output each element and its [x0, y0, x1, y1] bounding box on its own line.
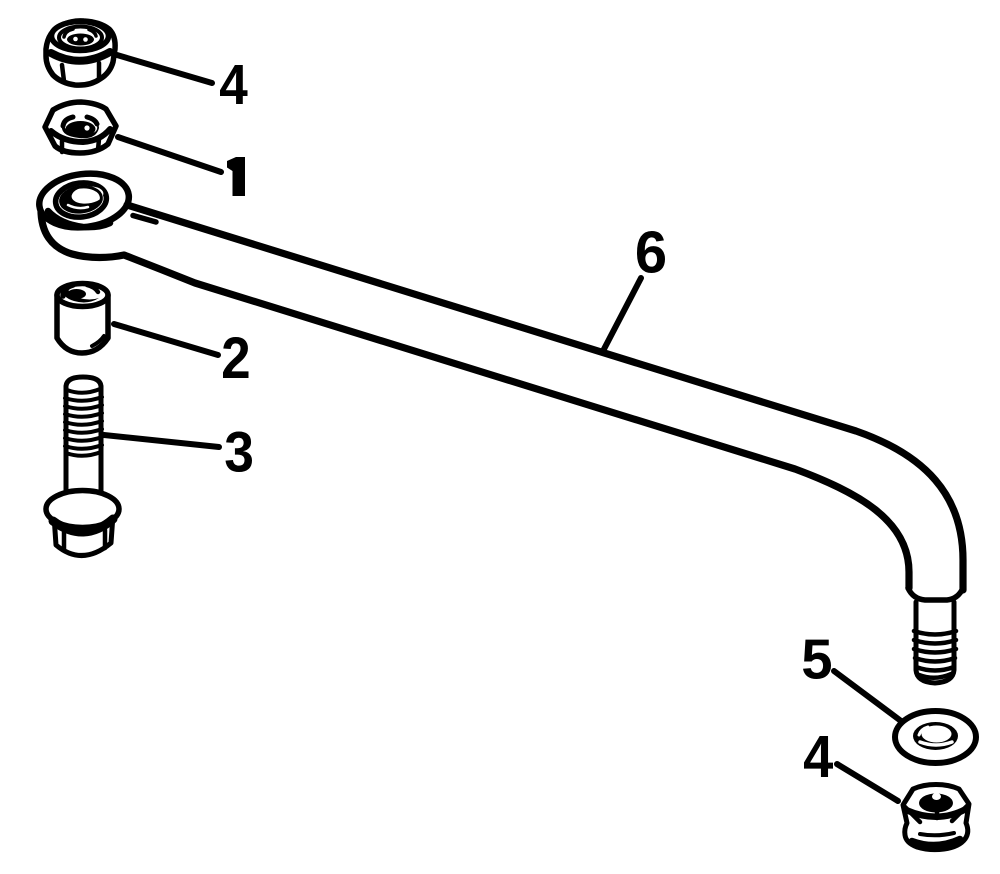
- label 6: [637, 231, 665, 273]
- chamfer shadow under rings: [48, 211, 110, 227]
- leader line to 4 (bottom): [837, 764, 898, 801]
- label 2: [223, 337, 248, 378]
- leader line to 6: [603, 278, 641, 351]
- hex nut (part 1): [45, 102, 116, 153]
- threaded stud: [916, 602, 954, 683]
- flange bolt (part 3): [46, 377, 119, 556]
- locknut top (part 4): [46, 21, 115, 85]
- leader line to 1: [118, 137, 221, 172]
- label 3: [226, 432, 252, 472]
- label 4 (top): [220, 65, 248, 104]
- flange nut bottom (part 4): [903, 785, 969, 850]
- eye inner hole with dark crescent: [58, 185, 103, 216]
- spacer bushing (part 2): [57, 283, 108, 353]
- label 5: [803, 640, 831, 679]
- leader line to 2: [114, 324, 218, 355]
- leader line to 3: [104, 435, 219, 447]
- rod lower edge with eye boss bottom: [41, 206, 909, 588]
- eye outer ring: [36, 169, 132, 233]
- label 4 (bottom): [804, 736, 833, 777]
- stub bottom shoulder: [908, 588, 963, 600]
- leader line to 5: [834, 671, 901, 721]
- washer (part 5): [895, 711, 976, 763]
- rod upper edge: [127, 205, 963, 590]
- leader line to 4 (top): [117, 55, 212, 83]
- link rod (part 6) with eye end and threaded stud: [36, 169, 963, 683]
- eye middle ring: [54, 180, 109, 220]
- label 1: [227, 157, 245, 196]
- neck shadow: [133, 216, 156, 223]
